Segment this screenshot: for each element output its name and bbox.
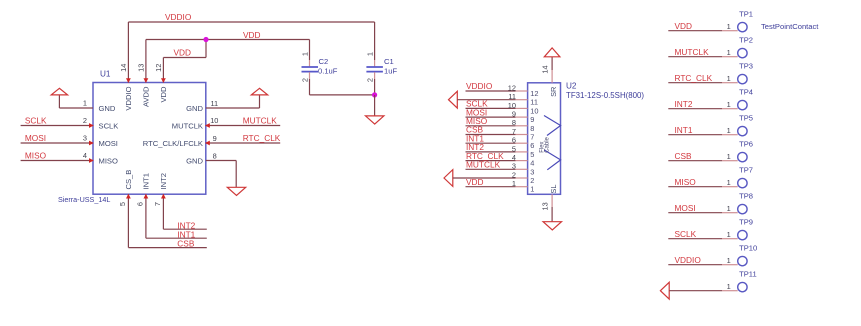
svg-text:MOSI: MOSI — [99, 139, 118, 148]
svg-text:CSB: CSB — [675, 151, 693, 161]
svg-text:MISO: MISO — [675, 177, 697, 187]
svg-text:VDDIO: VDDIO — [165, 12, 192, 22]
svg-text:10: 10 — [508, 101, 516, 110]
svg-text:6: 6 — [136, 202, 145, 206]
svg-text:1: 1 — [727, 204, 731, 213]
svg-text:MUTCLK: MUTCLK — [675, 47, 710, 57]
svg-text:TP5: TP5 — [739, 113, 753, 122]
svg-text:TP6: TP6 — [739, 139, 753, 148]
svg-text:9: 9 — [512, 110, 516, 119]
svg-text:MOSI: MOSI — [675, 203, 696, 213]
svg-text:1: 1 — [727, 230, 731, 239]
svg-text:1: 1 — [727, 74, 731, 83]
svg-text:1: 1 — [727, 152, 731, 161]
svg-text:11: 11 — [508, 92, 516, 101]
svg-text:7: 7 — [512, 127, 516, 136]
svg-text:U2: U2 — [566, 82, 577, 91]
svg-text:CSB: CSB — [177, 239, 195, 249]
svg-text:13: 13 — [541, 202, 550, 210]
svg-text:MOSI: MOSI — [25, 133, 46, 143]
svg-text:1: 1 — [727, 178, 731, 187]
svg-text:1: 1 — [727, 22, 731, 31]
svg-text:TP9: TP9 — [739, 217, 753, 226]
svg-text:8: 8 — [213, 151, 217, 160]
svg-text:14: 14 — [119, 64, 128, 72]
svg-text:GND: GND — [186, 104, 203, 113]
svg-text:12: 12 — [530, 89, 538, 98]
svg-text:2: 2 — [530, 176, 534, 185]
svg-text:RTC_CLK: RTC_CLK — [675, 73, 713, 83]
svg-text:2: 2 — [300, 78, 309, 82]
svg-text:0.1uF: 0.1uF — [318, 66, 338, 75]
svg-text:INT2: INT2 — [159, 173, 168, 189]
svg-text:11: 11 — [211, 99, 219, 108]
svg-text:C2: C2 — [319, 57, 329, 66]
svg-text:INT1: INT1 — [142, 173, 151, 189]
svg-text:RTC_CLK: RTC_CLK — [243, 133, 281, 143]
svg-text:AVDD: AVDD — [142, 86, 151, 107]
svg-text:MUTCLK: MUTCLK — [172, 122, 203, 131]
svg-text:8: 8 — [530, 124, 534, 133]
svg-text:1: 1 — [727, 100, 731, 109]
svg-text:VDD: VDD — [174, 47, 192, 57]
svg-text:4: 4 — [83, 151, 87, 160]
svg-text:1: 1 — [512, 179, 516, 188]
svg-text:5: 5 — [530, 150, 534, 159]
svg-text:GND: GND — [99, 104, 116, 113]
svg-text:12: 12 — [508, 83, 516, 92]
svg-text:MISO: MISO — [25, 151, 47, 161]
svg-text:10: 10 — [530, 106, 538, 115]
svg-text:TP2: TP2 — [739, 35, 753, 44]
svg-text:SCLK: SCLK — [675, 229, 697, 239]
svg-text:4: 4 — [512, 153, 516, 162]
svg-text:9: 9 — [530, 115, 534, 124]
svg-text:CS_B: CS_B — [124, 170, 133, 190]
svg-text:7: 7 — [530, 133, 534, 142]
svg-text:5: 5 — [118, 202, 127, 206]
svg-text:3: 3 — [530, 167, 534, 176]
svg-text:8: 8 — [512, 118, 516, 127]
svg-text:9: 9 — [213, 134, 217, 143]
svg-text:SL: SL — [549, 185, 558, 194]
svg-text:6: 6 — [512, 136, 516, 145]
svg-text:VDDIO: VDDIO — [466, 81, 493, 91]
svg-text:3: 3 — [512, 162, 516, 171]
svg-text:VDD: VDD — [243, 30, 261, 40]
svg-text:U1: U1 — [100, 70, 111, 79]
svg-text:1: 1 — [727, 256, 731, 265]
svg-text:5: 5 — [512, 144, 516, 153]
svg-text:SR: SR — [549, 87, 558, 97]
svg-text:VDD: VDD — [159, 86, 168, 103]
svg-text:TP11: TP11 — [739, 269, 757, 278]
svg-text:VDDIO: VDDIO — [124, 86, 133, 110]
svg-text:C1: C1 — [384, 57, 394, 66]
svg-text:1: 1 — [530, 185, 534, 194]
svg-text:TestPointContact: TestPointContact — [761, 22, 819, 31]
svg-text:7: 7 — [153, 202, 162, 206]
svg-text:RTC_CLK/LFCLK: RTC_CLK/LFCLK — [143, 139, 203, 148]
svg-text:TP3: TP3 — [739, 61, 753, 70]
svg-text:VDD: VDD — [675, 21, 693, 31]
svg-text:1: 1 — [727, 48, 731, 57]
svg-text:SCLK: SCLK — [25, 116, 47, 126]
svg-text:TP1: TP1 — [739, 9, 753, 18]
svg-text:2: 2 — [365, 78, 374, 82]
svg-text:11: 11 — [530, 98, 538, 107]
svg-text:GND: GND — [186, 157, 203, 166]
svg-text:4: 4 — [530, 159, 534, 168]
svg-text:6: 6 — [530, 141, 534, 150]
svg-text:1: 1 — [727, 126, 731, 135]
svg-text:MUTCLK: MUTCLK — [243, 116, 278, 126]
svg-text:1uF: 1uF — [384, 66, 397, 75]
svg-text:12: 12 — [154, 64, 163, 72]
svg-text:1: 1 — [83, 98, 87, 107]
svg-text:14: 14 — [540, 65, 549, 73]
svg-text:SCLK: SCLK — [99, 122, 119, 131]
svg-text:1: 1 — [727, 282, 731, 291]
svg-text:TP7: TP7 — [739, 165, 753, 174]
svg-text:INT1: INT1 — [675, 125, 693, 135]
svg-text:Cable: Cable — [545, 136, 551, 152]
svg-text:10: 10 — [210, 116, 218, 125]
svg-text:TP10: TP10 — [739, 243, 757, 252]
svg-text:Sierra-USS_14L: Sierra-USS_14L — [58, 195, 110, 204]
svg-text:1: 1 — [365, 52, 374, 56]
svg-text:1: 1 — [300, 52, 309, 56]
svg-text:VDDIO: VDDIO — [675, 255, 702, 265]
svg-text:INT2: INT2 — [675, 99, 693, 109]
svg-text:TF31-12S-0.5SH(800): TF31-12S-0.5SH(800) — [566, 91, 644, 100]
svg-text:2: 2 — [512, 170, 516, 179]
svg-text:13: 13 — [137, 64, 146, 72]
svg-text:TP4: TP4 — [739, 87, 753, 96]
svg-text:3: 3 — [83, 133, 87, 142]
svg-text:2: 2 — [83, 116, 87, 125]
svg-text:TP8: TP8 — [739, 191, 753, 200]
svg-text:MISO: MISO — [99, 157, 119, 166]
